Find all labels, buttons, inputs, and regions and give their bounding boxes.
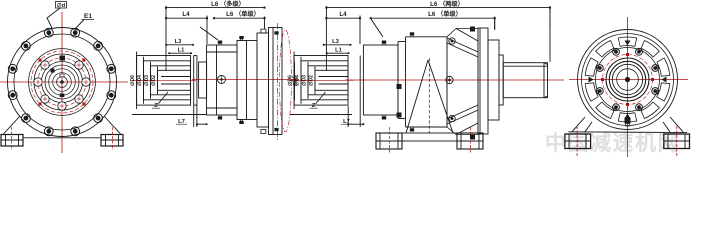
- svg-text:∅D6: ∅D6: [130, 75, 136, 86]
- svg-text:L6 （单级）: L6 （单级）: [428, 10, 462, 18]
- svg-text:L1: L1: [335, 47, 343, 53]
- svg-text:∅D3: ∅D3: [302, 75, 308, 86]
- svg-text:∅D3: ∅D3: [144, 75, 150, 86]
- svg-text:∅D5: ∅D5: [293, 75, 299, 86]
- svg-text:∅D4: ∅D4: [137, 75, 143, 86]
- svg-text:∅D2: ∅D2: [151, 75, 157, 86]
- svg-text:L6 （两级）: L6 （两级）: [430, 0, 464, 8]
- svg-text:E1: E1: [84, 13, 92, 20]
- svg-text:L4: L4: [339, 11, 347, 18]
- svg-text:L3: L3: [175, 39, 183, 45]
- svg-text:L6 （单级）: L6 （单级）: [226, 10, 260, 18]
- svg-text:L4: L4: [182, 11, 190, 18]
- svg-text:∅d: ∅d: [57, 2, 65, 9]
- svg-text:L1: L1: [178, 47, 186, 53]
- svg-text:∅D2: ∅D2: [309, 75, 315, 86]
- svg-text:L6 （多级）: L6 （多级）: [211, 0, 245, 8]
- svg-text:L3: L3: [332, 39, 340, 45]
